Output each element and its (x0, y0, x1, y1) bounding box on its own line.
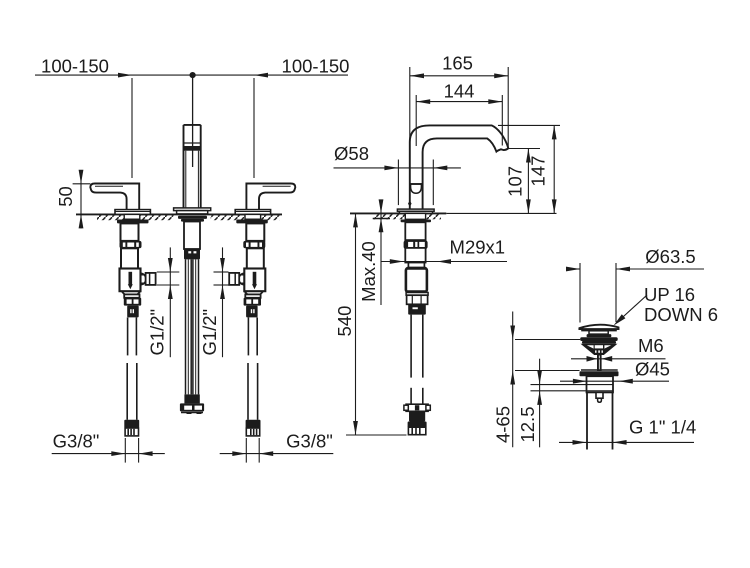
svg-text:165: 165 (442, 53, 473, 74)
svg-text:4-65: 4-65 (492, 406, 513, 443)
svg-text:Ø45: Ø45 (635, 359, 670, 380)
svg-text:144: 144 (444, 81, 475, 102)
svg-text:G3/8": G3/8" (53, 431, 100, 452)
svg-text:UP 16: UP 16 (644, 284, 695, 305)
svg-text:12.5: 12.5 (517, 406, 538, 442)
svg-text:M6: M6 (638, 335, 664, 356)
svg-text:147: 147 (528, 156, 549, 187)
svg-text:50: 50 (55, 186, 76, 207)
svg-text:G1/2": G1/2" (146, 309, 167, 356)
svg-text:Max.40: Max.40 (358, 241, 379, 302)
svg-text:107: 107 (504, 166, 525, 197)
svg-text:Ø63.5: Ø63.5 (645, 246, 695, 267)
svg-text:100-150: 100-150 (282, 56, 350, 77)
svg-text:540: 540 (334, 306, 355, 337)
svg-text:DOWN 6: DOWN 6 (644, 304, 718, 325)
svg-text:M29x1: M29x1 (450, 237, 506, 258)
svg-text:G3/8": G3/8" (286, 431, 333, 452)
svg-text:G1/2": G1/2" (199, 309, 220, 356)
svg-text:100-150: 100-150 (41, 56, 109, 77)
svg-text:G 1" 1/4: G 1" 1/4 (629, 417, 696, 438)
svg-text:Ø58: Ø58 (334, 143, 369, 164)
